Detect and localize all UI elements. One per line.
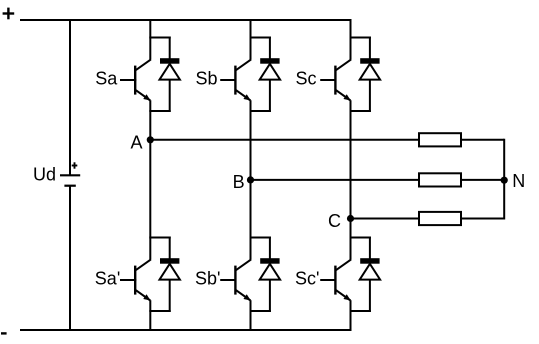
node A junction dot bbox=[147, 136, 154, 143]
wire: neutral bus vertical bbox=[503, 139, 505, 220]
diode DSc: triangle bbox=[360, 64, 380, 80]
wire: phase C leg, lower emitter to bottom rail bbox=[350, 300, 352, 331]
svg-text:N: N bbox=[512, 171, 525, 191]
transistor Sa: emitter stroke bbox=[136, 90, 151, 100]
wire: top DC + rail bbox=[20, 19, 352, 21]
wire: diode branch upper lead (Sc) bbox=[369, 37, 371, 59]
diode DSb': cathode bar bbox=[260, 258, 279, 264]
wire: diode branch lower lead (Sb') bbox=[269, 279, 271, 312]
wire: emitter junction to diode anode (Sc) bbox=[350, 110, 371, 112]
diode DSc: cathode bar bbox=[360, 58, 379, 64]
transistor Sa': base lead bbox=[120, 279, 136, 281]
wire: phase A leg, rail to upper collector bbox=[149, 19, 151, 60]
transistor Sc: collector stroke bbox=[336, 59, 351, 70]
- supply terminal label bbox=[1, 332, 7, 334]
diode DSb: cathode bar bbox=[260, 58, 279, 64]
wire: bottom DC - rail bbox=[20, 329, 352, 331]
wire: diode branch lower lead (Sb) bbox=[269, 79, 271, 112]
wire: emitter junction to diode anode (Sb) bbox=[250, 110, 271, 112]
wire: battery negative lead bbox=[69, 186, 71, 331]
transistor Sc': base lead bbox=[320, 279, 336, 281]
wire: phase C leg, upper emitter through node C to lower collector bbox=[350, 100, 352, 259]
transistor Sc': collector stroke bbox=[336, 259, 351, 270]
svg-text:Ud: Ud bbox=[33, 165, 56, 185]
diode DSa: triangle bbox=[160, 64, 180, 80]
transistor Sc': base bar bbox=[334, 266, 336, 295]
transistor Sb': emitter arrowhead bbox=[243, 294, 250, 300]
wire: emitter junction to diode anode (Sb') bbox=[250, 310, 271, 312]
svg-text:Sc: Sc bbox=[296, 69, 317, 89]
diode DSa': triangle bbox=[160, 264, 180, 280]
svg-text:C: C bbox=[328, 211, 341, 231]
wire: emitter junction to diode anode (Sc') bbox=[350, 310, 371, 312]
node N junction dot bbox=[501, 177, 508, 184]
svg-text:Sb': Sb' bbox=[195, 269, 220, 289]
svg-text:Sa: Sa bbox=[95, 69, 118, 89]
transistor Sc': emitter stroke bbox=[336, 290, 351, 300]
transistor Sa': collector stroke bbox=[136, 259, 151, 270]
transistor Sc: base lead bbox=[320, 79, 336, 81]
+ supply terminal label bbox=[3, 8, 15, 20]
resistor: phase B load bbox=[419, 173, 461, 186]
wire: battery positive lead bbox=[69, 19, 71, 175]
svg-text:Sc': Sc' bbox=[295, 269, 319, 289]
battery Ud positive plate bbox=[60, 174, 80, 176]
wire: phase C leg, rail to upper collector bbox=[350, 19, 352, 60]
transistor Sa: base lead bbox=[120, 79, 136, 81]
battery Ud negative plate bbox=[64, 185, 75, 187]
wire: phase A leg, upper emitter through node A to lower collector bbox=[149, 100, 151, 259]
transistor Sc': emitter arrowhead bbox=[343, 294, 350, 300]
svg-text:Sa': Sa' bbox=[95, 269, 120, 289]
svg-text:B: B bbox=[233, 172, 245, 192]
node B junction dot bbox=[247, 176, 254, 183]
transistor Sb: base bar bbox=[234, 66, 236, 95]
wire: collector junction to diode cathode (Sa') bbox=[149, 237, 170, 239]
wire: diode branch lower lead (Sc) bbox=[369, 79, 371, 112]
wire: phase C load to neutral bus bbox=[461, 218, 504, 220]
wire: diode branch lower lead (Sc') bbox=[369, 279, 371, 312]
wire: diode branch upper lead (Sb) bbox=[269, 37, 271, 59]
transistor Sa: collector stroke bbox=[136, 59, 151, 70]
diode DSa: cathode bar bbox=[160, 58, 179, 64]
transistor Sb': emitter stroke bbox=[236, 290, 251, 300]
wire: phase B output to load bbox=[251, 179, 421, 181]
diode DSb': triangle bbox=[260, 264, 280, 280]
wire: diode branch lower lead (Sa') bbox=[169, 279, 171, 312]
transistor Sa': base bar bbox=[134, 266, 136, 295]
transistor Sb': collector stroke bbox=[236, 259, 251, 270]
wire: phase A leg, lower emitter to bottom rail bbox=[149, 300, 151, 331]
node C junction dot bbox=[347, 215, 354, 222]
resistor: phase C load bbox=[419, 212, 461, 225]
diode DSb: triangle bbox=[260, 64, 280, 80]
wire: diode branch upper lead (Sa') bbox=[169, 237, 171, 259]
transistor Sa': emitter stroke bbox=[136, 290, 151, 300]
transistor Sa: emitter arrowhead bbox=[143, 94, 150, 100]
transistor Sa': emitter arrowhead bbox=[143, 294, 150, 300]
transistor Sc: emitter arrowhead bbox=[343, 94, 350, 100]
diode DSc': cathode bar bbox=[360, 258, 379, 264]
wire: diode branch upper lead (Sa) bbox=[169, 37, 171, 59]
transistor Sb': base lead bbox=[220, 279, 236, 281]
transistor Sa: base bar bbox=[134, 66, 136, 95]
wire: phase B leg, lower emitter to bottom rail bbox=[250, 300, 252, 331]
wire: diode branch upper lead (Sc') bbox=[369, 237, 371, 259]
wire: diode branch upper lead (Sb') bbox=[269, 237, 271, 259]
transistor Sc: emitter stroke bbox=[336, 90, 351, 100]
transistor Sb: emitter stroke bbox=[236, 90, 251, 100]
diode DSa': cathode bar bbox=[160, 258, 179, 264]
svg-text:Sb: Sb bbox=[196, 69, 218, 89]
transistor Sb: collector stroke bbox=[236, 59, 251, 70]
battery polarity + mark bbox=[72, 162, 78, 168]
wire: phase B leg, upper emitter through node B to lower collector bbox=[250, 100, 252, 259]
transistor Sc: base bar bbox=[334, 66, 336, 95]
wire: phase A load to neutral bus bbox=[461, 139, 504, 141]
wire: collector junction to diode cathode (Sc) bbox=[350, 37, 371, 39]
transistor Sb': base bar bbox=[234, 266, 236, 295]
wire: collector junction to diode cathode (Sb) bbox=[250, 37, 271, 39]
wire: phase B leg, rail to upper collector bbox=[250, 19, 252, 60]
wire: phase C output to load bbox=[351, 218, 421, 220]
wire: collector junction to diode cathode (Sc') bbox=[350, 237, 371, 239]
wire: diode branch lower lead (Sa) bbox=[169, 79, 171, 112]
diode DSc': triangle bbox=[360, 264, 380, 280]
wire: collector junction to diode cathode (Sa) bbox=[149, 37, 170, 39]
transistor Sb: emitter arrowhead bbox=[243, 94, 250, 100]
wire: phase B load to neutral node bbox=[461, 179, 504, 181]
wire: collector junction to diode cathode (Sb') bbox=[250, 237, 271, 239]
svg-text:A: A bbox=[131, 133, 143, 153]
wire: emitter junction to diode anode (Sa) bbox=[149, 110, 170, 112]
wire: emitter junction to diode anode (Sa') bbox=[149, 310, 170, 312]
transistor Sb: base lead bbox=[220, 79, 236, 81]
resistor: phase A load bbox=[419, 133, 461, 146]
wire: phase A output to load bbox=[150, 139, 420, 141]
